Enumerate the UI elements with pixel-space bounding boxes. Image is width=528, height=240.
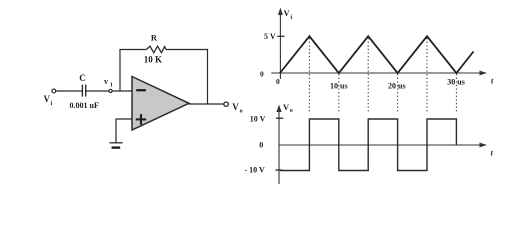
op-amp U1 <box>132 77 189 131</box>
svg-text:10 us: 10 us <box>330 81 348 90</box>
dotted line 15us <box>367 38 369 112</box>
dotted line 20us <box>397 74 399 112</box>
svg-text:0: 0 <box>260 70 264 79</box>
wire feedback right vertical <box>207 49 209 104</box>
triangle wave Vi <box>280 36 474 73</box>
svg-text:10 V: 10 V <box>250 115 266 124</box>
Vi graph y-axis <box>279 11 281 79</box>
svg-text:i: i <box>51 101 53 107</box>
-10V tick <box>275 169 282 171</box>
svg-text:10 K: 10 K <box>144 55 162 65</box>
output terminal Vo <box>224 102 228 106</box>
node v1 <box>109 89 112 92</box>
svg-text:v: v <box>104 77 108 86</box>
dotted line 25us <box>426 38 428 112</box>
dotted line 10us <box>338 74 340 112</box>
wire input to capacitor <box>56 90 82 92</box>
Vo graph x-axis <box>279 144 484 146</box>
input terminal Vi <box>52 89 56 93</box>
svg-text:20 us: 20 us <box>388 81 406 90</box>
dotted line 30us <box>455 74 457 112</box>
op-amp minus sign <box>136 89 146 91</box>
svg-text:V: V <box>44 94 51 104</box>
ground <box>110 142 123 144</box>
svg-text:0: 0 <box>276 77 280 86</box>
wire feedback top left <box>119 49 146 51</box>
op-amp plus sign <box>136 118 146 120</box>
square wave Vo <box>280 119 456 171</box>
svg-text:R: R <box>151 32 158 42</box>
dotted line 5us <box>308 38 310 112</box>
svg-text:i: i <box>291 15 293 21</box>
svg-text:t: t <box>491 148 494 157</box>
svg-text:1: 1 <box>110 82 113 88</box>
capacitor C <box>81 85 83 97</box>
svg-text:5 V: 5 V <box>264 32 276 41</box>
resistor R <box>146 46 166 53</box>
svg-text:o: o <box>290 108 293 114</box>
10V tick <box>276 117 283 119</box>
Vo graph y-axis <box>278 108 280 184</box>
svg-text:o: o <box>240 108 243 114</box>
5V tick <box>277 35 284 37</box>
svg-text:0.001 uF: 0.001 uF <box>70 101 99 110</box>
svg-text:V: V <box>232 102 239 112</box>
svg-text:C: C <box>79 73 86 83</box>
svg-text:- 10 V: - 10 V <box>245 165 266 174</box>
wire noninverting input <box>116 119 133 143</box>
svg-text:30 us: 30 us <box>447 78 465 87</box>
svg-text:t: t <box>491 76 494 85</box>
wire capacitor to node <box>86 90 109 92</box>
wire feedback top right <box>166 49 208 51</box>
svg-text:V: V <box>284 8 291 18</box>
svg-text:0: 0 <box>259 141 263 150</box>
wire feedback left vertical <box>119 50 121 92</box>
wire node to op-amp <box>112 90 133 92</box>
Vi graph x-axis <box>271 72 483 74</box>
wire output <box>189 103 224 105</box>
